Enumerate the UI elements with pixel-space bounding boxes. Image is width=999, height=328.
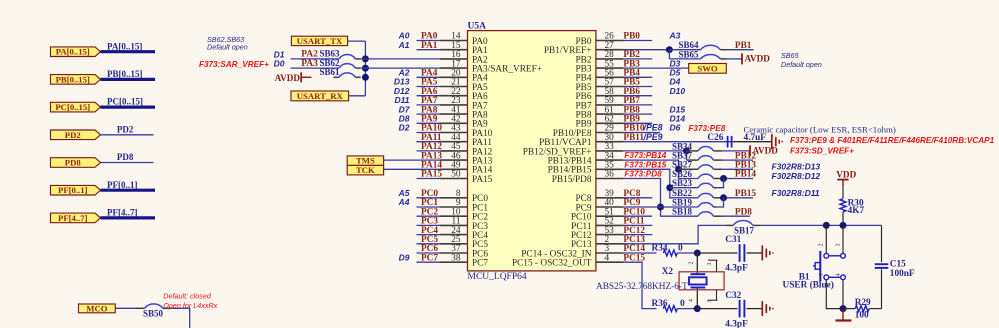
svg-text:100nF: 100nF <box>890 269 915 279</box>
junction PB14 row <box>720 175 727 182</box>
svg-text:Ceramic capacitor (Low ESR, ES: Ceramic capacitor (Low ESR, ESR<1ohm) <box>744 124 896 134</box>
svg-text:D6: D6 <box>670 123 681 133</box>
port PD2 <box>51 130 101 140</box>
solder bridge SB27 <box>672 160 722 170</box>
svg-text:TCK: TCK <box>356 165 375 175</box>
wire pin27 to junction <box>623 49 669 51</box>
svg-text:PF[4..7]: PF[4..7] <box>58 213 88 223</box>
wire PD8 <box>722 207 752 217</box>
pin 41 (PA8) left <box>399 104 488 120</box>
svg-text:U5A: U5A <box>468 21 487 31</box>
svg-text:Default: closed: Default: closed <box>163 292 212 301</box>
svg-text:A4: A4 <box>398 197 410 207</box>
svg-text:PD8: PD8 <box>117 152 134 162</box>
svg-text:PD8: PD8 <box>65 158 82 168</box>
pin 33 (PB12/SD_VREF+) right <box>523 142 623 157</box>
svg-text:C31: C31 <box>725 235 741 245</box>
svg-text:AVDD: AVDD <box>745 54 771 64</box>
wire R34 to junction <box>677 252 697 254</box>
svg-text:PA15: PA15 <box>421 170 442 180</box>
wire PB15 down to SB19 right <box>716 198 724 207</box>
wire MCO to SB50 <box>115 307 144 309</box>
pin 23 (PA7) left <box>395 95 488 111</box>
capacitor C15 100nF <box>875 260 915 279</box>
wire right branch with C15 <box>881 225 883 308</box>
wire pin36 corner down <box>623 179 698 217</box>
wire C32 to ground <box>746 308 762 310</box>
resistor R34 0ohm <box>652 243 684 256</box>
pin 58 (PB6) right <box>575 87 623 102</box>
bus PA[0..15] <box>101 50 156 53</box>
wire PA3 with labels PA3 SB62 <box>291 58 341 69</box>
svg-text:F373:PB15: F373:PB15 <box>624 160 666 169</box>
wire USART_RX to junction column <box>349 95 366 97</box>
solder bridge SB18 <box>672 207 722 217</box>
wire PC8 <box>623 189 652 199</box>
svg-text:PB[0..15]: PB[0..15] <box>107 69 143 79</box>
wire pin35 corner down <box>623 169 698 198</box>
svg-text:MCU_LQFP64: MCU_LQFP64 <box>468 272 527 282</box>
net label PF[4..7] <box>107 208 138 218</box>
svg-text:F373:PD8: F373:PD8 <box>624 170 662 179</box>
pin 29 (PB10/PE8) right <box>553 124 623 139</box>
resistor R36 0ohm <box>652 299 686 312</box>
wire C26 to ground <box>734 141 772 143</box>
svg-text:PA3: PA3 <box>301 59 318 69</box>
port PF[0..1] <box>51 185 101 195</box>
pin 45 (PA12) left <box>417 142 493 157</box>
svg-text:PC7: PC7 <box>472 259 488 269</box>
port PC[0..15] <box>51 102 101 112</box>
svg-text:PB[0..15]: PB[0..15] <box>56 74 90 84</box>
wire pin33 junction down to SB37 <box>687 151 699 160</box>
wire PB1 <box>727 41 754 51</box>
pin 14 (PA0) left <box>398 31 488 47</box>
svg-text:PC[0..15]: PC[0..15] <box>107 97 143 107</box>
wire PB14 down to SB23 right <box>714 179 724 188</box>
wire PB5 <box>623 77 681 88</box>
pin 61 (PB8) right <box>575 105 623 120</box>
svg-text:D0: D0 <box>274 59 285 69</box>
pushbutton B1 USER (Blue) <box>813 243 845 281</box>
svg-text:PB0: PB0 <box>623 32 640 42</box>
note F373:PD8 <box>624 170 662 179</box>
svg-text:PB1: PB1 <box>735 41 752 51</box>
ground (C31) <box>762 246 773 261</box>
svg-text:X2: X2 <box>662 267 674 277</box>
label D1 <box>274 50 285 60</box>
wire button bottom pins <box>826 280 843 309</box>
note Ceramic capacitor <box>744 124 896 134</box>
pin 30 (PB11/VCAP1) right <box>539 133 623 148</box>
wire PC13 corner up to SB17 row <box>623 225 727 245</box>
wire crystal column <box>696 253 698 309</box>
port USART_TX <box>291 36 347 46</box>
ground (B1) <box>836 309 852 321</box>
svg-text:/PE9: /PE9 <box>643 132 663 142</box>
solder bridge SB61 <box>339 73 361 77</box>
pin 49 (PA14) left <box>421 161 493 176</box>
pin 51 (PC10) right <box>571 207 623 222</box>
wire PB3 to SWO <box>623 58 689 69</box>
svg-text:Open for L4xxRx: Open for L4xxRx <box>163 301 217 310</box>
svg-text:36: 36 <box>605 170 615 180</box>
solder bridge SB63 <box>339 54 361 58</box>
wire junction to C31 <box>697 252 737 254</box>
svg-text:D10: D10 <box>670 86 686 96</box>
svg-text:F373:PE9 & F401RE/F411RE/F446R: F373:PE9 & F401RE/F411RE/F446RE/F410RB:V… <box>790 136 995 145</box>
note F373:PB14 <box>624 151 666 160</box>
capacitor C26 4.7uF <box>707 133 766 147</box>
wire PB4 <box>623 68 681 79</box>
svg-text:4: 4 <box>835 273 841 276</box>
svg-text:PB14: PB14 <box>735 170 757 180</box>
svg-text:PD8: PD8 <box>735 207 752 217</box>
resistor R29 100 <box>843 298 882 320</box>
svg-text:3: 3 <box>835 243 841 246</box>
svg-text:2: 2 <box>819 243 825 246</box>
pin 25 (PC5) left <box>417 235 489 250</box>
svg-text:SB18: SB18 <box>672 207 693 217</box>
ground (C26) <box>772 134 783 149</box>
wire PC14 to R34 <box>623 244 657 254</box>
svg-text:SB50: SB50 <box>143 309 164 319</box>
pin 26 (PB0) right <box>575 32 623 47</box>
svg-text:TMS: TMS <box>356 156 375 166</box>
svg-text:AVDD: AVDD <box>753 146 779 156</box>
label SB50 <box>143 309 164 319</box>
solder bridge SB34 <box>672 141 722 151</box>
solder bridge SB50 <box>145 304 169 308</box>
svg-text:1: 1 <box>819 273 825 276</box>
svg-text:USART_TX: USART_TX <box>297 36 343 46</box>
solder bridge SB23 <box>672 178 716 188</box>
svg-text:PF[4..7]: PF[4..7] <box>107 208 138 218</box>
capacitor C31 4.3pF <box>725 235 748 274</box>
pin 4 (PC15 - OSC32_OUT) right <box>512 253 623 268</box>
designator U5A <box>468 21 487 31</box>
wire PD8 <box>101 162 154 164</box>
wire R36 to junction <box>677 308 697 310</box>
pin 40 (PC9) right <box>575 198 623 213</box>
svg-text:A1: A1 <box>398 40 410 50</box>
solder bridge SB17 <box>727 220 761 235</box>
svg-text:R29: R29 <box>855 298 871 308</box>
junction pin35 column at SB23 row <box>666 184 698 191</box>
wire junction to C32 <box>697 308 737 310</box>
wire pin34 corner down <box>623 160 698 178</box>
svg-text:4K7: 4K7 <box>848 206 865 216</box>
svg-text:4: 4 <box>605 253 610 263</box>
pin 37 (PC6) left <box>417 244 489 259</box>
svg-text:VDD: VDD <box>836 169 856 179</box>
net label PD8 <box>117 152 134 162</box>
junction OSC32_IN <box>694 250 701 257</box>
svg-text:C26: C26 <box>707 133 723 143</box>
wire PC15 corner down <box>623 253 657 308</box>
solder bridge SB65 <box>669 49 726 59</box>
bus PF[0..1] <box>101 189 156 192</box>
pin 62 (PB9) right <box>575 115 623 130</box>
wire SB50 to bottom edge <box>169 308 190 328</box>
pin 17 (PA3/SAR_VREF+) left <box>440 59 542 74</box>
port PF[4..7] <box>51 213 101 223</box>
svg-text:AVDD: AVDD <box>275 73 301 83</box>
pin 2 (PC13) right <box>571 235 623 250</box>
wire PB13 <box>722 161 756 171</box>
wire PB9 <box>623 114 685 125</box>
note SB62,SB63 Default open <box>207 35 248 51</box>
svg-text:Default open: Default open <box>781 60 822 69</box>
svg-text:3: 3 <box>707 263 713 266</box>
svg-text:SB65: SB65 <box>679 49 700 59</box>
pin 38 (PC7) left <box>399 252 489 268</box>
svg-text:PC7: PC7 <box>421 253 438 263</box>
svg-text:50: 50 <box>451 170 461 180</box>
svg-text:PA15: PA15 <box>472 175 493 185</box>
solder bridge SB26 <box>672 169 722 179</box>
wire PB0 <box>623 31 681 42</box>
wire PC9 <box>623 198 661 208</box>
note F302R8:D11 <box>772 188 820 198</box>
pin 59 (PB7) right <box>575 96 623 111</box>
svg-text:MCO: MCO <box>86 303 107 313</box>
note F373:PB15 <box>624 160 666 169</box>
svg-text:F373:PE8: F373:PE8 <box>688 124 725 133</box>
wire PB11/PE9 to C26 <box>623 132 726 143</box>
svg-text:PB15: PB15 <box>735 189 757 199</box>
junction PB15 row <box>720 194 727 201</box>
junction pin34 column at SB27 row <box>675 166 698 173</box>
wire PB14 <box>722 170 756 180</box>
net label PA[0..15] <box>107 41 142 51</box>
junction PA2 <box>361 55 440 62</box>
port TMS <box>347 156 383 166</box>
wire junction down to SB65 row <box>668 50 670 59</box>
wire SB61 row <box>320 67 341 77</box>
pin 50 (PA15) left <box>417 170 493 185</box>
solder bridge SB62 <box>339 64 361 68</box>
svg-text:R34: R34 <box>652 243 668 253</box>
junction SB61 <box>362 74 369 81</box>
svg-text:PA[0..15]: PA[0..15] <box>107 41 142 51</box>
wire PB8 <box>623 104 685 115</box>
wire VDD to R30 <box>842 186 844 225</box>
wire PC11 <box>623 217 652 227</box>
pin 28 (PB2) right <box>575 50 623 65</box>
svg-text:2: 2 <box>689 262 695 265</box>
pin 10 (PC2) left <box>417 207 489 222</box>
wire C31 to ground <box>746 252 762 254</box>
pin 39 (PC8) right <box>575 189 623 204</box>
junction OSC32_OUT <box>694 305 701 312</box>
pin 43 (PA10) left <box>399 123 493 139</box>
svg-text:38: 38 <box>451 253 461 263</box>
pin 21 (PA5) left <box>394 77 488 93</box>
junction button left <box>823 222 830 229</box>
pin 9 (PC1) left <box>398 197 489 213</box>
ground (C32) <box>762 301 773 316</box>
pin 16 (PA2) left <box>440 50 488 65</box>
port TCK <box>347 165 383 175</box>
wire USART_TX to junction column <box>348 40 366 42</box>
svg-text:PB11: PB11 <box>623 133 644 143</box>
wire PB7 <box>623 96 652 106</box>
svg-text:SB17: SB17 <box>734 225 755 235</box>
port SWO <box>689 63 727 73</box>
svg-text:PD2: PD2 <box>65 130 81 140</box>
svg-text:SB23: SB23 <box>672 178 693 188</box>
pin 27 (PB1/VREF+) right <box>544 41 623 56</box>
label D0 <box>274 59 285 69</box>
power port AVDD (USART area) <box>275 72 312 83</box>
port MCO <box>79 303 116 313</box>
MCU U5A body <box>468 31 596 271</box>
svg-text:PC[0..15]: PC[0..15] <box>55 102 90 112</box>
svg-text:4.3pF: 4.3pF <box>725 264 748 274</box>
wire PC10 <box>623 207 652 217</box>
label MCU_LQFP64 <box>468 272 527 282</box>
svg-text:PC15 - OSC32_OUT: PC15 - OSC32_OUT <box>512 259 592 269</box>
pin 24 (PC4) left <box>417 226 489 241</box>
wire PB10/PE8 <box>623 123 681 134</box>
svg-text:PC15: PC15 <box>623 253 645 263</box>
wire junction column <box>364 41 366 96</box>
pin 36 (PB15/PD8) right <box>552 170 623 185</box>
net label PD2 <box>117 124 134 134</box>
svg-text:R36: R36 <box>652 299 668 309</box>
pin 56 (PB4) right <box>575 69 623 84</box>
svg-text:100: 100 <box>855 310 869 320</box>
svg-text:D9: D9 <box>399 252 410 262</box>
junction pin36 column at PC9 <box>657 204 698 211</box>
note Default closed / Open for L4xxRx <box>163 292 217 310</box>
pin 46 (PA13) left <box>421 151 493 166</box>
pin 55 (PB3) right <box>575 59 623 74</box>
pin 8 (PC0) left <box>398 188 489 204</box>
svg-text:F373:PB14: F373:PB14 <box>624 151 666 160</box>
svg-text:SB61: SB61 <box>320 67 341 77</box>
svg-text:F373:SAR_VREF+: F373:SAR_VREF+ <box>199 60 269 69</box>
solder bridge SB22 <box>672 188 722 198</box>
svg-text:SB65: SB65 <box>781 51 800 60</box>
junction PA3 <box>361 65 440 72</box>
wire PA2 with labels PA2 SB63 <box>291 49 341 60</box>
pin 44 (PA11) left <box>417 133 493 148</box>
wire PC12 <box>623 226 652 236</box>
note F373:SD_VREF+ <box>790 146 854 155</box>
svg-text:F373:SD_VREF+: F373:SD_VREF+ <box>790 146 854 155</box>
svg-text:D2: D2 <box>399 123 410 133</box>
wire PB15 <box>722 189 756 199</box>
wire PD2 <box>101 134 154 136</box>
svg-text:4: 4 <box>689 299 695 302</box>
wire pin33 to SB34 <box>623 150 687 152</box>
label B1 USER (Blue) <box>783 273 834 291</box>
pin 42 (PA9) left <box>399 114 488 130</box>
solder bridge SB64 <box>669 40 726 50</box>
note F302R8:D13 <box>772 162 821 172</box>
solder bridge SB19 <box>672 197 716 207</box>
junction R30 bottom <box>840 222 847 229</box>
svg-text:0: 0 <box>680 299 685 309</box>
svg-text:PF[0..1]: PF[0..1] <box>107 180 138 190</box>
wire TMS to PA13 <box>384 159 440 161</box>
svg-text:F302R8:D11: F302R8:D11 <box>772 188 820 198</box>
wire SB34 to AVDD <box>722 150 750 152</box>
note F302R8:D12 <box>772 171 821 181</box>
wire SB17 row to button block <box>760 224 882 226</box>
note F373:PE8 <box>688 124 725 133</box>
svg-text:PF[0..1]: PF[0..1] <box>58 185 88 195</box>
svg-text:C32: C32 <box>725 291 741 301</box>
wire button top pins <box>826 225 843 253</box>
bus PB[0..15] <box>101 78 156 81</box>
svg-text:0: 0 <box>678 243 683 253</box>
svg-text:PA1: PA1 <box>421 41 438 51</box>
svg-text:SWO: SWO <box>697 63 718 73</box>
pin 57 (PB5) right <box>575 78 623 93</box>
junction button bottom <box>840 305 847 312</box>
pin 53 (PC12) right <box>571 226 623 241</box>
power port AVDD (SB65) <box>727 53 771 64</box>
net label PB[0..15] <box>107 69 143 79</box>
crystal X2 ABS25-32.768KHZ-6-T <box>596 260 724 302</box>
svg-text:Default open: Default open <box>207 43 248 52</box>
pin 35 (PB14/PB15) right <box>548 161 623 176</box>
pin 3 (PC14 - OSC32_IN) right <box>521 244 623 259</box>
note F373:SAR_VREF+ <box>199 60 269 69</box>
svg-text:4.3pF: 4.3pF <box>725 319 748 328</box>
note F373:PE9 VCAP1 <box>790 136 995 145</box>
wire TCK to PA14 <box>384 168 440 170</box>
port USART_RX <box>291 91 349 101</box>
pin 52 (PC11) right <box>571 217 623 232</box>
pin 34 (PB13/PB14) right <box>548 151 623 166</box>
resistor R30 4K7 <box>840 198 864 215</box>
net label PF[0..1] <box>107 180 138 190</box>
wire PB2 <box>623 50 652 60</box>
wire PB6 <box>623 86 685 97</box>
svg-text:PA[0..15]: PA[0..15] <box>56 47 90 57</box>
pin 15 (PA1) left <box>398 40 488 56</box>
junction pin27 <box>666 46 673 53</box>
port PA[0..15] <box>51 47 101 57</box>
capacitor C32 4.3pF <box>725 291 748 328</box>
solder bridge SB37 <box>672 151 722 161</box>
pin 20 (PA4) left <box>398 68 488 84</box>
junction pin33 <box>683 147 690 154</box>
port PB[0..15] <box>51 74 101 84</box>
pin 11 (PC3) left <box>417 217 489 232</box>
wire PB12 <box>722 151 756 161</box>
power port VDD <box>836 169 856 186</box>
net label PC[0..15] <box>107 97 143 107</box>
svg-text:F302R8:D12: F302R8:D12 <box>772 171 821 181</box>
bus PF[4..7] <box>101 216 156 219</box>
power port AVDD (SB34) <box>750 145 778 156</box>
svg-text:PD2: PD2 <box>117 124 134 134</box>
bus PC[0..15] <box>101 105 156 108</box>
svg-text:PB15/PD8: PB15/PD8 <box>552 175 592 185</box>
port PD8 <box>51 158 101 168</box>
pin 22 (PA6) left <box>394 86 488 102</box>
note SB65 Default open <box>781 51 822 69</box>
svg-text:USART_RX: USART_RX <box>297 91 344 101</box>
